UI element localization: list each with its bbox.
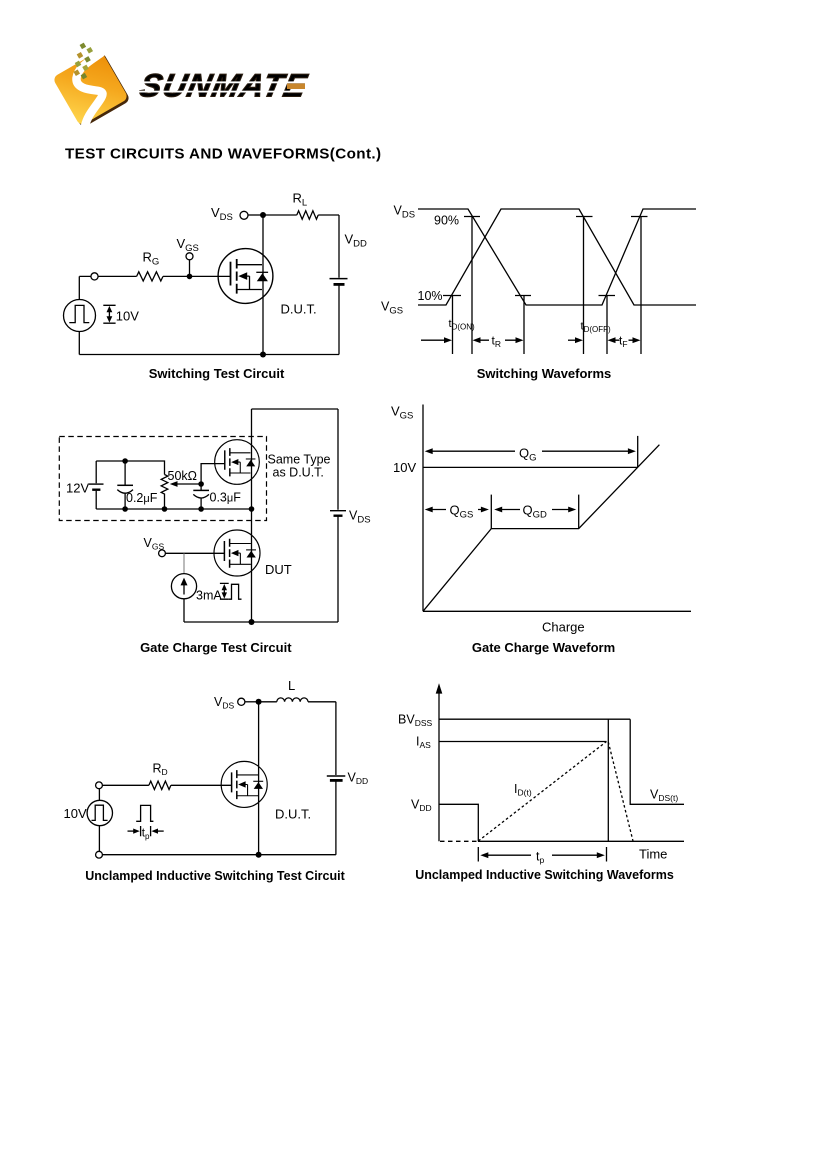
svg-text:Unclamped Inductive Switching: Unclamped Inductive Switching Waveforms xyxy=(415,868,674,882)
dimension arrow QGS xyxy=(425,507,489,513)
dashed enclosure box xyxy=(59,437,266,521)
svg-text:12V: 12V xyxy=(66,481,89,496)
svg-text:Same Type: Same Type xyxy=(268,453,331,467)
wire box top xyxy=(96,461,164,475)
svg-text:QG: QG xyxy=(519,446,537,464)
svg-text:Switching Waveforms: Switching Waveforms xyxy=(477,366,612,381)
wire gate horizontal left xyxy=(79,275,136,277)
3mA pulse glyph xyxy=(229,584,242,599)
tp bound ticks xyxy=(478,847,606,862)
junction bottom nodes xyxy=(122,506,128,512)
svg-text:0.3μF: 0.3μF xyxy=(210,491,242,505)
wire wiper to gate of Q2 xyxy=(201,464,225,484)
logo wordmark SUNMATE xyxy=(137,67,311,104)
wire gate horizontal right to MOSFET gate xyxy=(163,275,231,277)
svg-text:50kΩ: 50kΩ xyxy=(168,469,198,483)
svg-text:VGS: VGS xyxy=(381,300,403,317)
tp pulse glyph xyxy=(136,805,153,821)
tp tick marks xyxy=(141,826,151,836)
svg-text:L: L xyxy=(288,678,295,693)
wire gate to RD xyxy=(102,784,148,786)
logo wordmark white slits xyxy=(136,81,312,83)
tp arrows xyxy=(128,829,164,834)
dimension arrow QG xyxy=(425,448,636,454)
waveform VGS trace xyxy=(418,209,696,305)
svg-text:IAS: IAS xyxy=(416,735,431,751)
capacitor C2 0.3uF xyxy=(193,484,209,509)
3mA dimension arrow xyxy=(220,583,229,599)
logo wordmark orange accent on E xyxy=(287,83,305,89)
svg-text:VDS: VDS xyxy=(214,695,234,711)
svg-text:ID(t): ID(t) xyxy=(514,782,532,798)
svg-text:VGS: VGS xyxy=(177,236,199,254)
battery VDD fig5 xyxy=(327,776,346,780)
svg-text:tp: tp xyxy=(142,828,150,842)
svg-text:10%: 10% xyxy=(418,289,443,303)
transistor Q1 D.U.T. MOSFET xyxy=(218,249,273,304)
terminal open circle gate input xyxy=(96,782,103,789)
transistor Q3 DUT xyxy=(214,530,260,576)
wire box bottom rail xyxy=(96,508,251,510)
logo checker squares xyxy=(63,41,102,82)
potentiometer wiper arrow xyxy=(170,481,201,487)
logo icon orange square xyxy=(52,50,128,126)
axis X solid xyxy=(478,840,684,842)
svg-text:90%: 90% xyxy=(434,214,459,228)
svg-text:TEST CIRCUITS AND WAVEFORMS(Co: TEST CIRCUITS AND WAVEFORMS(Cont.) xyxy=(65,146,381,163)
timing guide verticals xyxy=(453,217,642,355)
wire right rail vertical xyxy=(338,215,340,355)
svg-text:VDS(t): VDS(t) xyxy=(650,788,678,804)
terminal open circle bottom left xyxy=(96,851,103,858)
inductor L xyxy=(277,698,308,702)
svg-text:VDD: VDD xyxy=(411,798,432,814)
junction drain node xyxy=(256,699,262,705)
junction top cap node xyxy=(122,458,128,464)
wire bottom rail xyxy=(184,621,338,623)
line 10V level xyxy=(423,466,638,468)
resistor 50k vertical xyxy=(161,475,168,510)
svg-text:RG: RG xyxy=(143,250,160,268)
tick 10% marks xyxy=(443,295,615,297)
svg-text:VGS: VGS xyxy=(144,536,165,552)
wire drain-source vertical xyxy=(262,215,264,355)
pulse generator source fig5 xyxy=(87,800,112,825)
terminal open circle VGS xyxy=(159,550,166,557)
wire tap to current source xyxy=(183,553,185,573)
svg-text:10V: 10V xyxy=(116,308,139,323)
svg-text:10V: 10V xyxy=(393,460,416,475)
wire left vertical to pulse source xyxy=(98,789,100,852)
svg-text:SUNMATE: SUNMATE xyxy=(137,67,311,104)
wire left vertical from gate line to pulse source xyxy=(78,276,80,354)
logo icon shadow xyxy=(54,52,130,128)
wire main vertical rail xyxy=(251,409,253,622)
arrow into tD(ON) xyxy=(421,337,452,343)
arrow into tD(OFF) xyxy=(568,337,583,343)
svg-text:Gate Charge Test Circuit: Gate Charge Test Circuit xyxy=(140,640,292,655)
waveform VDS trace xyxy=(418,209,696,305)
node VGS stub wire xyxy=(189,260,191,277)
transistor Q2 Same Type as D.U.T. xyxy=(215,440,260,485)
wire bottom rail fig5 xyxy=(102,854,336,856)
capacitor C1 0.2uF xyxy=(117,461,133,509)
dashed current ramp ID(t) xyxy=(478,742,606,842)
svg-text:D.U.T.: D.U.T. xyxy=(281,302,317,317)
transistor Q4 D.U.T. xyxy=(221,761,267,807)
svg-text:BVDSS: BVDSS xyxy=(398,713,432,729)
svg-text:Unclamped Inductive Switching: Unclamped Inductive Switching Test Circu… xyxy=(85,869,345,883)
wire gate DUT xyxy=(165,552,225,554)
terminal open circle VDS xyxy=(240,211,248,219)
waveform VDD step xyxy=(439,804,478,841)
arrows tR span xyxy=(473,337,524,343)
terminal open circle VGS xyxy=(186,253,193,260)
terminal open circle on gate input xyxy=(91,273,98,280)
svg-text:RD: RD xyxy=(153,762,168,778)
svg-text:VDS: VDS xyxy=(394,204,416,221)
svg-text:Switching Test Circuit: Switching Test Circuit xyxy=(149,366,285,381)
wire DUT drain-source vertical xyxy=(258,702,260,855)
junction drain node xyxy=(260,212,266,218)
wire bottom rail xyxy=(79,354,339,356)
tick QG right bound xyxy=(637,436,639,468)
svg-text:tp: tp xyxy=(536,850,544,866)
dashed current fall xyxy=(608,742,633,841)
wire VDS circle to drain node xyxy=(248,214,263,216)
resistor RD xyxy=(149,781,171,789)
junction source node bottom xyxy=(260,352,266,358)
svg-text:as D.U.T.: as D.U.T. xyxy=(273,466,324,480)
waveform gate charge curve xyxy=(423,445,659,612)
wire VDS to drain node xyxy=(245,701,259,703)
wire top rail xyxy=(252,408,339,410)
svg-text:VDS: VDS xyxy=(211,205,233,223)
dimension arrow QGD xyxy=(494,507,576,513)
svg-text:DUT: DUT xyxy=(265,562,292,577)
wire drain to RL xyxy=(263,214,297,216)
wire drain node to inductor xyxy=(259,701,277,703)
resistor RL xyxy=(297,211,318,219)
svg-text:Gate Charge Waveform: Gate Charge Waveform xyxy=(472,640,615,655)
svg-text:VGS: VGS xyxy=(391,404,413,422)
svg-text:3mA: 3mA xyxy=(196,589,222,603)
waveform avalanche vertical xyxy=(607,719,609,841)
junction source node fig5 xyxy=(256,852,262,858)
junction gate node xyxy=(187,274,193,280)
axis X dashed lead xyxy=(440,840,478,842)
svg-text:VDD: VDD xyxy=(345,232,368,250)
terminal open circle VDS xyxy=(238,698,245,705)
battery 12V xyxy=(89,461,104,509)
svg-text:0.2μF: 0.2μF xyxy=(126,491,158,505)
wire RD to gate xyxy=(171,784,232,786)
wire inductor to right rail xyxy=(308,701,336,703)
axis X xyxy=(423,610,691,612)
battery VDS xyxy=(330,511,346,516)
axis Y VGS xyxy=(422,405,424,612)
wire right rail xyxy=(337,409,339,622)
line IAS level xyxy=(439,741,607,743)
arrows tF span xyxy=(608,337,641,343)
svg-text:tF: tF xyxy=(619,334,628,350)
line BVDSS level xyxy=(439,718,630,720)
wire right rail vertical xyxy=(335,702,337,855)
waveform BVDSS drop to VDS tail xyxy=(630,719,684,804)
logo white S swoosh xyxy=(76,53,102,126)
current source 3mA xyxy=(171,574,196,599)
svg-text:D.U.T.: D.U.T. xyxy=(275,807,311,822)
svg-text:VDD: VDD xyxy=(348,771,369,787)
svg-text:tR: tR xyxy=(492,334,501,350)
svg-text:10V: 10V xyxy=(64,806,87,821)
pulse generator source xyxy=(64,300,96,332)
svg-text:QGD: QGD xyxy=(523,503,548,521)
wire current source to bottom rail xyxy=(183,599,185,622)
svg-text:Charge: Charge xyxy=(542,620,585,635)
tick 90% marks xyxy=(464,216,648,218)
wire RL to right rail xyxy=(318,214,339,216)
tick QGD bound xyxy=(578,495,580,529)
svg-text:QGS: QGS xyxy=(450,503,474,521)
junction wiper node xyxy=(198,481,204,487)
battery VDD xyxy=(330,279,348,285)
svg-text:RL: RL xyxy=(293,191,308,209)
10V amplitude dimension arrow xyxy=(103,305,115,323)
tick QGS bound xyxy=(490,495,492,529)
junction bottom DUT source xyxy=(249,619,255,625)
axis Y with arrow xyxy=(436,683,443,841)
dimension arrow tp xyxy=(480,852,605,858)
resistor RG xyxy=(137,272,163,281)
svg-text:VDS: VDS xyxy=(349,509,371,526)
svg-text:Time: Time xyxy=(639,847,667,862)
